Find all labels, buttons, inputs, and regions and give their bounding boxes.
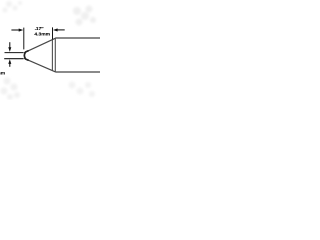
up arrow <box>8 59 11 67</box>
internal joint vertical line <box>51 39 53 70</box>
down arrow <box>8 42 11 52</box>
dimension extension line right (x=52.5) <box>52 27 54 39</box>
top dimension left tail with right arrowhead <box>11 29 23 32</box>
svg-text:4.3mm: 4.3mm <box>34 32 50 38</box>
cone bottom slope <box>24 58 55 72</box>
body cylinder bottom edge <box>55 71 100 73</box>
tip front rounded face <box>24 51 28 61</box>
watermark blob lower-left <box>1 78 21 101</box>
watermark blob upper-right <box>73 6 96 26</box>
dimension extension line left (x=23.8) <box>23 28 25 50</box>
cone top slope <box>24 38 55 53</box>
watermark blob upper-left <box>3 1 23 13</box>
left dim upper extension line <box>5 52 24 54</box>
top dimension right tail with left arrowhead <box>53 28 65 31</box>
svg-text:mm: mm <box>0 72 6 77</box>
body front vertical line <box>54 38 56 72</box>
svg-text:.17″: .17″ <box>35 26 45 32</box>
body cylinder top edge <box>55 37 100 39</box>
left dim lower extension line <box>4 58 23 60</box>
watermark blob lower-right <box>69 82 96 98</box>
